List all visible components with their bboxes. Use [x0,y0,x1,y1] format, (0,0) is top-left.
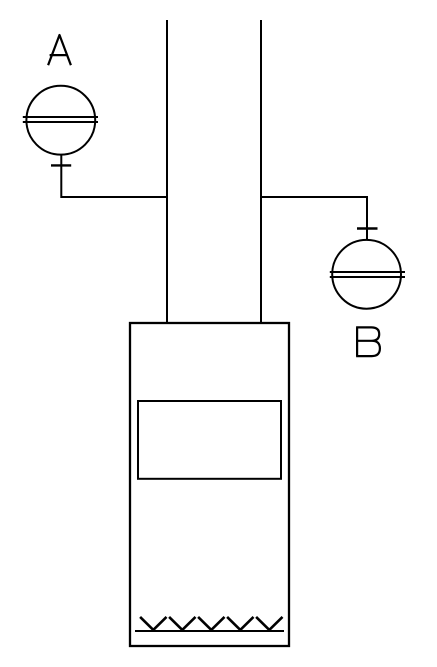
grate zigzag V5 [256,617,282,630]
gauge B diaphragm seal lines [330,272,405,277]
grate zigzag V3 [198,617,224,630]
gauge A diaphragm seal lines [23,117,98,122]
label B [356,327,380,356]
wire B (impulse line from right pipe to gauge B) [260,196,367,198]
vessel (main column body) [130,323,289,646]
label A [48,35,71,65]
grate zigzag V1 [140,617,166,630]
gauge A stem [60,154,62,198]
gauge A valve tick [51,164,71,166]
grate baseline [135,630,284,632]
grate zigzag V4 [227,617,253,630]
gauge B valve tick [357,227,378,229]
pipe right (riser into vessel top) [260,20,262,323]
pipe left (riser into vessel top) [166,20,168,323]
grate zigzag V2 [169,617,195,630]
wire A (impulse line from gauge A to left pipe) [61,196,168,198]
gauge B body (circle) [332,240,401,309]
gauge A body (circle) [26,86,95,155]
gauge B stem [366,196,368,240]
vessel window (inner rectangle) [138,401,281,479]
